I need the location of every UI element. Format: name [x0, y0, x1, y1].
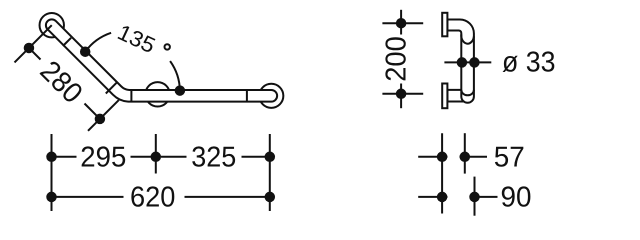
- svg-text:57: 57: [494, 141, 525, 173]
- svg-text:135: 135: [114, 19, 159, 58]
- svg-text:90: 90: [501, 182, 532, 214]
- svg-text:295: 295: [80, 141, 126, 173]
- svg-text:ø 33: ø 33: [502, 47, 556, 79]
- svg-text:620: 620: [130, 182, 175, 214]
- svg-text:325: 325: [191, 141, 236, 173]
- svg-text:200: 200: [381, 36, 413, 82]
